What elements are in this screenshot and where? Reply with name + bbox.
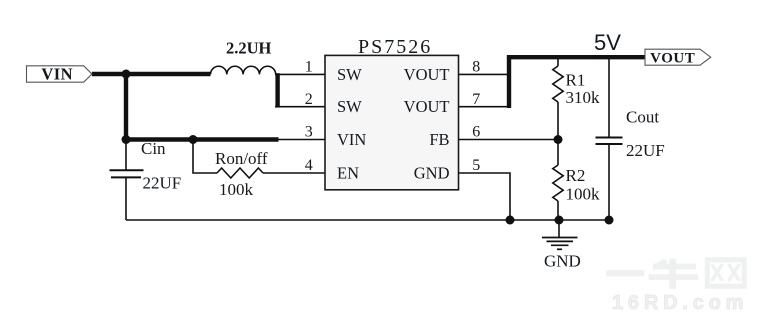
svg-text:22UF: 22UF [626, 141, 665, 160]
svg-text:2.2UH: 2.2UH [226, 38, 272, 57]
svg-text:SW: SW [337, 65, 362, 84]
svg-text:8: 8 [472, 59, 480, 76]
svg-text:Cin: Cin [141, 139, 166, 158]
svg-text:GND: GND [414, 164, 450, 183]
svg-text:5: 5 [472, 157, 480, 174]
svg-text:310k: 310k [566, 88, 601, 107]
svg-text:16RD.com: 16RD.com [612, 292, 748, 312]
svg-text:100k: 100k [219, 180, 254, 199]
svg-text:100k: 100k [566, 185, 601, 204]
svg-text:VOUT: VOUT [404, 65, 450, 84]
svg-text:3: 3 [305, 124, 313, 141]
svg-text:VIN: VIN [337, 130, 366, 149]
svg-text:2: 2 [305, 91, 313, 108]
svg-text:Cout: Cout [626, 108, 659, 127]
svg-text:4: 4 [305, 157, 313, 174]
svg-text:VOUT: VOUT [650, 50, 695, 66]
svg-text:22UF: 22UF [143, 173, 182, 192]
svg-text:R2: R2 [566, 166, 586, 185]
svg-text:5V: 5V [594, 30, 621, 55]
svg-text:GND: GND [544, 252, 581, 271]
svg-text:Ron/off: Ron/off [215, 149, 268, 168]
svg-text:1: 1 [305, 59, 313, 76]
svg-text:VIN: VIN [41, 64, 73, 83]
svg-text:VOUT: VOUT [404, 97, 450, 116]
svg-text:6: 6 [472, 124, 480, 141]
svg-text:R1: R1 [566, 71, 586, 90]
svg-text:FB: FB [429, 130, 449, 149]
svg-text:PS7526: PS7526 [358, 36, 432, 58]
svg-text:7: 7 [472, 91, 480, 108]
svg-text:SW: SW [337, 97, 362, 116]
svg-text:EN: EN [337, 164, 359, 183]
